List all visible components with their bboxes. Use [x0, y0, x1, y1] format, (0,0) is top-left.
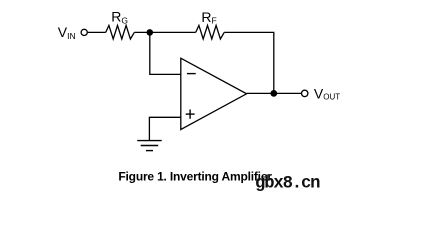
op-amp U1: [181, 58, 247, 129]
svg-text:gbx8.cn: gbx8.cn: [255, 175, 320, 194]
output terminal: [302, 90, 308, 96]
wire noninverting input to ground: [149, 117, 180, 140]
input terminal: [81, 29, 87, 35]
ground: [137, 141, 162, 151]
wire output: [247, 92, 302, 94]
wire RG to RF: [134, 31, 195, 33]
resistor RG: [106, 25, 135, 39]
wire input to RG: [88, 31, 106, 33]
svg-text:VOUT: VOUT: [314, 86, 340, 102]
svg-text:RF: RF: [201, 9, 216, 26]
node B junction: [270, 90, 277, 97]
svg-text:Figure 1. Inverting Amplifier: Figure 1. Inverting Amplifier: [118, 170, 272, 184]
wire node A to inverting input: [150, 32, 181, 74]
node A junction: [147, 29, 154, 36]
resistor RF: [196, 25, 225, 39]
svg-text:VIN: VIN: [58, 24, 76, 41]
svg-text:RG: RG: [111, 9, 128, 26]
wire RF to node B: [224, 32, 274, 93]
